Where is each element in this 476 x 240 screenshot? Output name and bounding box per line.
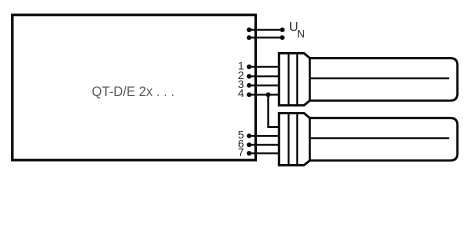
svg-text:4: 4: [238, 88, 244, 100]
svg-text:7: 7: [238, 147, 244, 159]
svg-text:QT-D/E 2x . . .: QT-D/E 2x . . .: [92, 84, 175, 99]
svg-text:N: N: [297, 29, 305, 41]
